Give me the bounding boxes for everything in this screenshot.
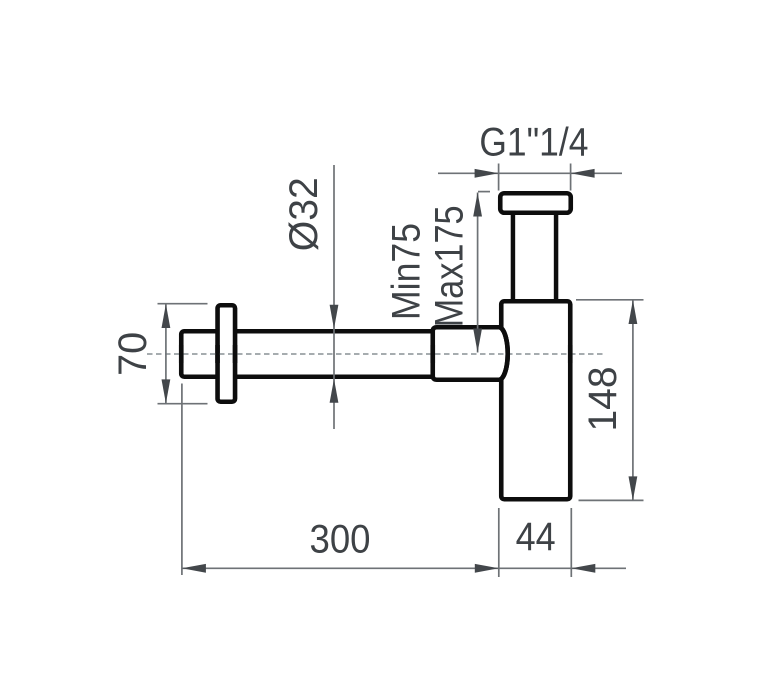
svg-text:300: 300 (310, 517, 371, 561)
svg-text:70: 70 (111, 332, 155, 376)
svg-text:148: 148 (581, 367, 625, 432)
svg-text:44: 44 (516, 515, 556, 559)
svg-text:G1"1/4: G1"1/4 (479, 120, 588, 164)
svg-text:Max175: Max175 (428, 205, 472, 327)
svg-text:Ø32: Ø32 (282, 177, 326, 251)
svg-text:Min75: Min75 (385, 223, 429, 320)
